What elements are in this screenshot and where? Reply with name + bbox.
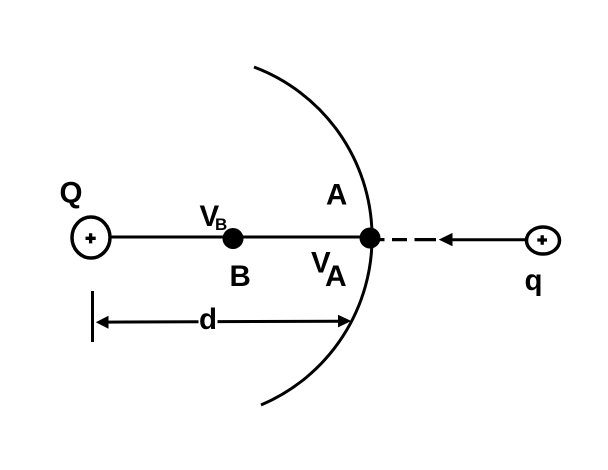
svg-text:d: d xyxy=(199,303,217,336)
svg-text:B: B xyxy=(215,215,227,234)
svg-text:B: B xyxy=(230,260,251,293)
equipotential arc through A xyxy=(254,67,372,405)
arrow from q toward A xyxy=(450,238,527,241)
svg-text:Q: Q xyxy=(60,177,83,210)
wire Q to A xyxy=(91,236,370,239)
charge Q xyxy=(72,217,110,258)
charge q xyxy=(527,227,560,254)
svg-text:q: q xyxy=(525,264,543,297)
svg-text:A: A xyxy=(326,178,347,211)
dashed line from A xyxy=(374,238,436,241)
svg-text:A: A xyxy=(325,260,347,293)
dimension arrow left xyxy=(106,320,199,323)
dimension arrow right xyxy=(218,320,341,323)
node B xyxy=(223,228,244,249)
node A xyxy=(360,228,381,249)
dimension tick xyxy=(91,291,94,342)
